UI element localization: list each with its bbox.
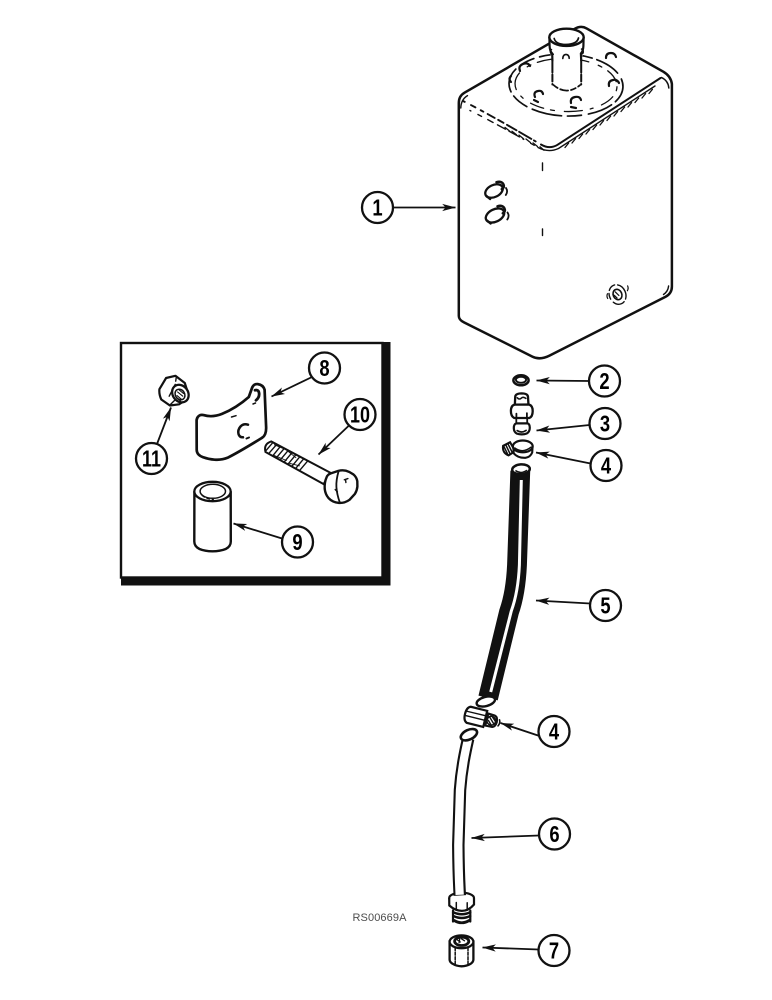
drain port on tank face — [606, 282, 629, 307]
mounting plate dashed ellipses — [508, 52, 624, 118]
svg-text:8: 8 — [319, 356, 329, 381]
svg-text:10: 10 — [350, 402, 370, 428]
callout 8 — [272, 353, 341, 397]
svg-text:2: 2 — [599, 369, 609, 394]
tank seam parallel line — [470, 111, 538, 148]
callout 3 — [537, 408, 621, 439]
callout 9 — [234, 524, 314, 558]
svg-text:RS00669A: RS00669A — [353, 912, 408, 924]
svg-text:1: 1 — [372, 196, 382, 221]
side fitting upper — [483, 182, 507, 201]
svg-text:4: 4 — [601, 454, 612, 479]
reservoir tank body outline (item 1) — [459, 27, 672, 358]
faint face seam ticks — [542, 163, 544, 171]
hose item 5 — [476, 464, 531, 709]
nut item 11 — [159, 376, 192, 406]
filler neck (white fill hides plate behind) — [550, 37, 583, 91]
callout 11 — [136, 408, 171, 475]
inset box shadow — [382, 342, 391, 586]
spacer item 9 — [194, 482, 231, 552]
hose clamp item 4 (upper) — [501, 441, 532, 458]
svg-text:3: 3 — [600, 412, 610, 437]
side fitting lower — [483, 206, 508, 226]
tube item 6 — [458, 727, 479, 896]
nut item 7 — [450, 935, 474, 966]
callout 7 — [483, 935, 570, 966]
plate clip details — [510, 53, 620, 108]
callout 5 — [536, 590, 621, 621]
bolt item 10 hex head — [325, 470, 358, 503]
svg-text:7: 7 — [549, 939, 559, 964]
callout 4 lower — [501, 716, 570, 747]
callout 2 — [537, 366, 621, 397]
tube 6 end fitting — [449, 893, 474, 923]
callout 10 — [319, 399, 376, 455]
svg-text:11: 11 — [142, 446, 161, 472]
hose clamp item 4 (lower) — [463, 706, 501, 729]
corner seam arcs — [461, 96, 468, 108]
seam hatch band — [505, 89, 652, 150]
bolt item 10 — [263, 440, 330, 485]
svg-text:9: 9 — [292, 530, 302, 555]
callout 6 — [472, 819, 571, 850]
bracket item 8 — [197, 384, 267, 460]
svg-text:5: 5 — [600, 594, 610, 619]
callout 4 upper — [536, 450, 622, 481]
svg-text:4: 4 — [549, 720, 560, 745]
svg-text:6: 6 — [549, 822, 559, 847]
tank top-front seam — [463, 101, 541, 145]
inset box frame — [121, 343, 383, 578]
callout 1 — [362, 192, 456, 223]
fitting item 3 — [511, 393, 533, 434]
washer item 2 — [513, 375, 528, 385]
